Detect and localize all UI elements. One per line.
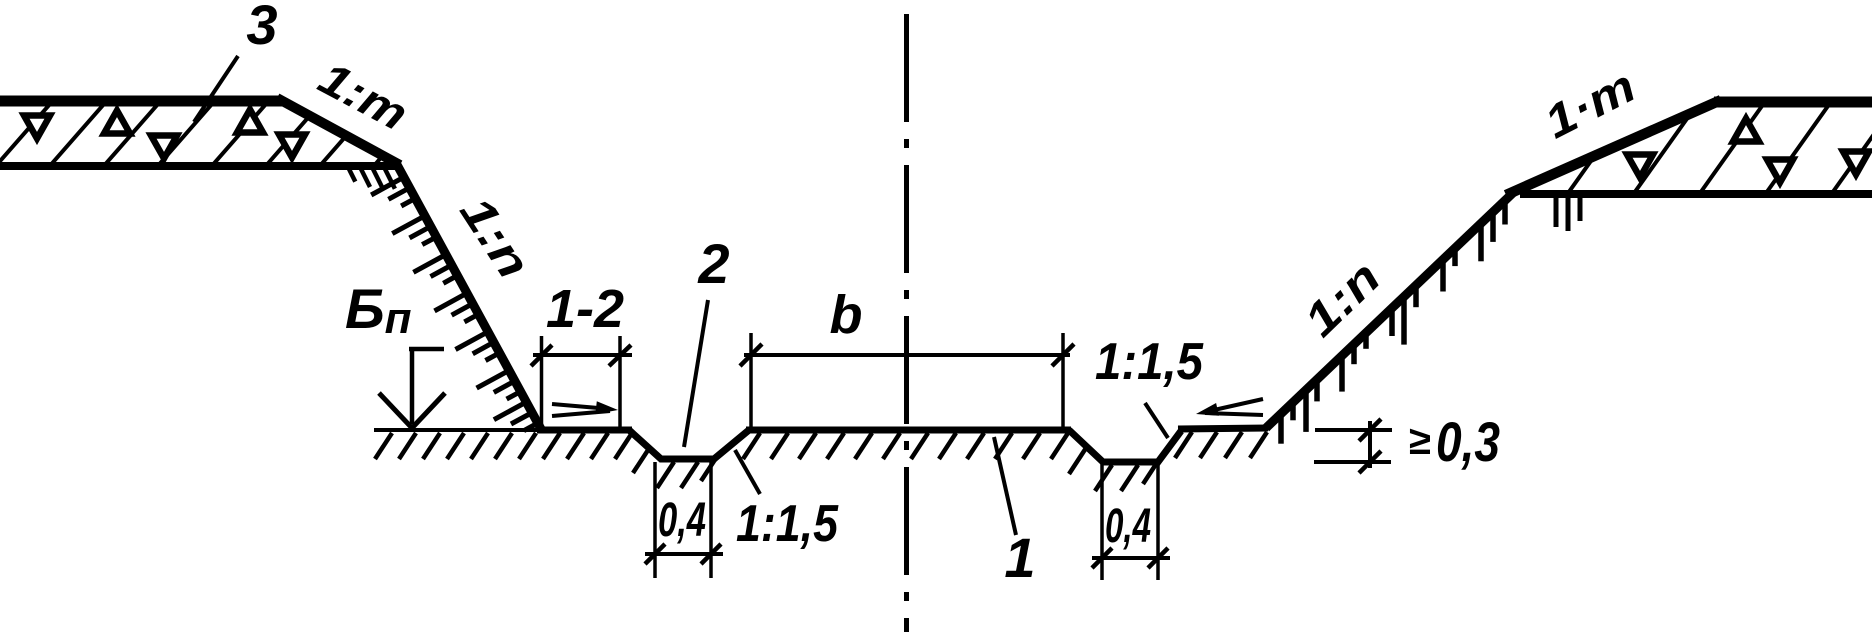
hatch ticks under left shoulder [349, 169, 395, 189]
dim 0,3 bottom slash tick [1359, 451, 1381, 473]
dim 0,4 right line [1092, 556, 1170, 560]
dim b right slash tick [1052, 344, 1074, 366]
right-band triangle 2 [1733, 119, 1759, 142]
dim 0,3 top slash tick [1359, 419, 1381, 441]
left-band triangle 2 [104, 111, 130, 134]
hatch around left trench [633, 447, 718, 488]
leader for label 2 [684, 300, 708, 447]
wire right-band 1:m slope line [1506, 100, 1721, 195]
wire right-band bottom line [1520, 190, 1872, 198]
leader for label 3 [194, 56, 238, 122]
left-band triangle 5 [279, 135, 305, 158]
hatch ticks on right 1:n slope [1281, 203, 1505, 444]
dim 1-2 right extension line [618, 336, 622, 428]
Бп mark arrow wings [379, 393, 412, 428]
left-band triangle 1 [24, 116, 50, 139]
centre line (axis) [904, 14, 909, 632]
dim 0,4 left ext lines [653, 462, 657, 578]
Бп mark top tick [409, 347, 444, 352]
right-band triangle 4 [1843, 152, 1869, 175]
wire ground line left berm [537, 427, 632, 434]
wire thin ground extension left [374, 428, 540, 432]
leader for label 1 [994, 437, 1016, 535]
hatch around right trench [1069, 448, 1160, 491]
leader for 1:1,5 right [1145, 403, 1168, 438]
right-band triangle 3 [1767, 160, 1793, 183]
wire left-band 1:m slope line [277, 98, 400, 165]
right trench outline [1069, 430, 1181, 462]
left trench outline [629, 430, 749, 459]
svg-text:1-2: 1-2 [546, 279, 624, 339]
dim 0,4 left line [645, 552, 723, 556]
hatch under center ground [743, 433, 1068, 459]
wire right 1:n slope line [1266, 190, 1516, 428]
left-band triangle 3 [151, 136, 177, 159]
wire right-band top line [1714, 97, 1872, 108]
dim b left slash tick [740, 344, 762, 366]
hatch ticks under right shoulder [1556, 197, 1580, 231]
dim b left extension line [749, 333, 753, 428]
leader for 1:1,5 left [735, 450, 760, 494]
flow arrow left [552, 404, 610, 409]
dim 0,4 left slash ticks [645, 544, 665, 564]
hatch under right berm [1175, 432, 1267, 458]
dim b line [744, 353, 1070, 357]
svg-text:b: b [830, 285, 863, 345]
hatch ticks on left 1:n slope [371, 179, 535, 431]
svg-text:1: 1 [1004, 526, 1035, 589]
dim 0,3 bottom line [1314, 460, 1391, 464]
dim 0,4 right slash ticks [1092, 548, 1112, 568]
svg-text:0,3: 0,3 [1436, 410, 1500, 473]
wire left-band top line [0, 96, 283, 107]
Бп mark vertical line [410, 349, 415, 424]
dim 0,4 right ext lines [1100, 464, 1104, 580]
right-band triangle 1 [1627, 155, 1653, 178]
svg-text:3: 3 [246, 0, 277, 56]
dim 1-2 line [533, 353, 632, 357]
svg-text:1:1,5: 1:1,5 [1095, 333, 1204, 391]
svg-text:2: 2 [697, 232, 729, 295]
svg-text:1:1,5: 1:1,5 [736, 495, 839, 553]
flow arrow right [1205, 399, 1263, 412]
svg-text:0,4: 0,4 [658, 494, 706, 547]
left-band triangle 4 [237, 110, 263, 133]
svg-text:0,4: 0,4 [1105, 500, 1151, 553]
right-band fill hatch [1500, 106, 1872, 196]
svg-text:≥: ≥ [1409, 419, 1431, 463]
hatch under left berm [543, 433, 632, 459]
dim 1-2 left slash tick [531, 345, 552, 366]
dim 1-2 right slash tick [609, 345, 631, 366]
wire ground line center [746, 427, 1071, 434]
dim 0,3 top line [1315, 428, 1392, 432]
dim 1-2 left extension line [540, 336, 544, 428]
wire left 1:n slope line [395, 161, 541, 429]
dim 0,3 vertical line [1368, 421, 1372, 468]
left-band fill hatch [0, 104, 482, 168]
wire left-band bottom line [0, 162, 401, 170]
dim b right extension line [1061, 333, 1065, 428]
hatch under left pit bottom [375, 433, 536, 459]
wire ground line right berm [1178, 428, 1268, 429]
